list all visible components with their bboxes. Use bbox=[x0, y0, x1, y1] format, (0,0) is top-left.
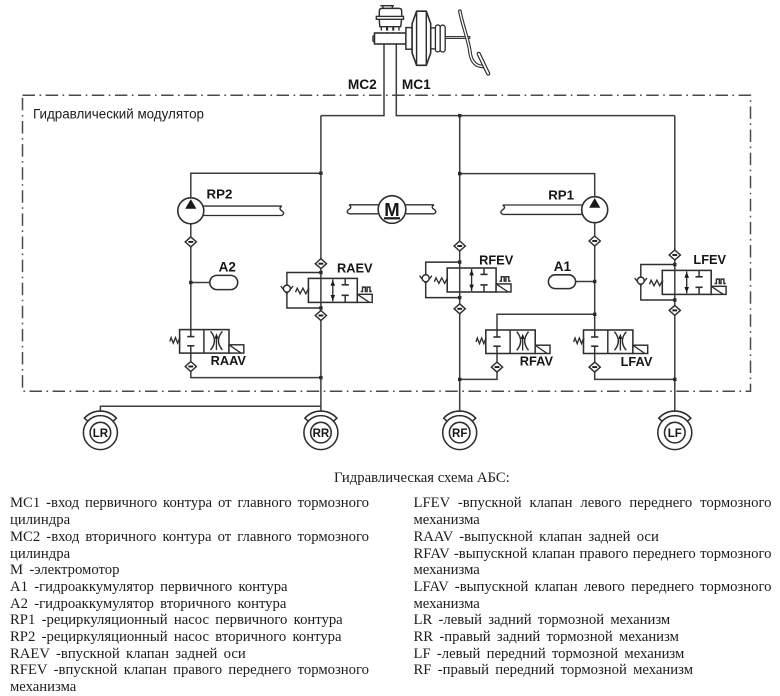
junction node: RFEV bypass bottom bbox=[458, 296, 461, 299]
junction node: RP2 discharge into RAEV line bbox=[319, 172, 322, 175]
inlet valve RAEV: solenoid with pulse control bbox=[357, 287, 372, 302]
svg-text:RP1: RP1 bbox=[548, 188, 574, 203]
check-fitting diamond at LFAV out bbox=[589, 362, 600, 372]
junction node: LFEV bypass top bbox=[673, 263, 676, 266]
wheel brake RR: drum circles bbox=[304, 416, 338, 450]
svg-text:LR: LR bbox=[93, 428, 109, 440]
junction node: MC1 line to RFEV branch bbox=[458, 114, 461, 117]
pump RP2: circle with delivery triangle bbox=[178, 198, 204, 224]
junction node: RP1 discharge into RFEV line bbox=[458, 172, 461, 175]
pushrod flange discs bbox=[435, 25, 445, 52]
junction node: A1 tap bbox=[593, 280, 596, 283]
inlet valve LFEV: solenoid with pulse control bbox=[711, 279, 726, 294]
inlet valve RFEV: body bbox=[434, 268, 496, 292]
outlet valve RAAV: solenoid bbox=[229, 345, 244, 353]
svg-text:A1: A1 bbox=[554, 259, 572, 274]
wire RAAV return to rear wheel line bbox=[191, 353, 321, 378]
wire rear axle branch to LR bbox=[100, 406, 321, 411]
svg-text:RP2: RP2 bbox=[207, 187, 233, 202]
electric motor M: right shaft bbox=[406, 205, 436, 214]
check-fitting diamond at RAAV out bbox=[185, 362, 196, 372]
hydraulic modulator boundary (dash-dot box) bbox=[23, 95, 751, 391]
wire RFAV return to RF wheel line bbox=[460, 354, 497, 380]
booster-to-flange connector lines bbox=[431, 28, 436, 49]
junction node: RFEV bypass top bbox=[458, 260, 461, 263]
wire A2 link bbox=[191, 282, 211, 284]
caption bbox=[334, 470, 510, 487]
booster step flange bbox=[406, 28, 412, 50]
svg-text:A2: A2 bbox=[219, 260, 236, 275]
junction node: RFAV return into RF line bbox=[458, 378, 461, 381]
junction node: RAAV return into rear line bbox=[319, 376, 322, 379]
wire RP1 discharge to RFEV line junction bbox=[460, 174, 595, 197]
wheel brake RR: shoe bbox=[305, 411, 337, 421]
wheel brake LF: shoe bbox=[659, 411, 691, 421]
svg-text:RF: RF bbox=[452, 428, 467, 440]
inlet valve RFEV: solenoid with pulse control bbox=[496, 277, 511, 292]
master cylinder reservoir bbox=[376, 8, 403, 26]
pump RP1: circle with delivery triangle bbox=[582, 197, 608, 223]
svg-text:RFAV: RFAV bbox=[520, 353, 554, 368]
svg-text:LFEV: LFEV bbox=[693, 252, 726, 267]
outlet valve RAAV: body bbox=[170, 330, 229, 354]
svg-text:M: M bbox=[384, 199, 399, 220]
electric motor M: circle bbox=[378, 196, 406, 224]
wire RFEV main line down to RF wheel bbox=[459, 116, 461, 412]
legend left column bbox=[10, 495, 369, 695]
pump RP1: drive shaft bbox=[501, 205, 582, 214]
check-fitting diamond at RFEV out bbox=[454, 304, 465, 314]
wheel brake LR: shoe bbox=[84, 411, 116, 421]
svg-text:RR: RR bbox=[313, 428, 330, 440]
svg-text:RAAV: RAAV bbox=[211, 353, 247, 368]
junction node: RAEV bypass top bbox=[319, 271, 322, 274]
svg-text:RFEV: RFEV bbox=[479, 252, 514, 267]
wire RFAV supply link bbox=[497, 314, 595, 330]
outlet valve LFAV: body bbox=[574, 330, 633, 354]
inlet valve RAEV: body bbox=[296, 278, 358, 302]
brake pedal arm bbox=[460, 11, 485, 67]
outlet valve RFAV: body bbox=[476, 330, 535, 354]
accumulator A1 bbox=[548, 275, 575, 289]
check-fitting diamond at LFEV out bbox=[669, 305, 680, 315]
reservoir ports bbox=[381, 27, 399, 35]
wheel brake RF: shoe bbox=[444, 411, 476, 421]
pushrod bbox=[445, 37, 470, 39]
wire RAEV main line down to RR wheel bbox=[320, 116, 322, 412]
svg-text:MC2: MC2 bbox=[348, 77, 377, 92]
inlet valve LFEV: bypass check-valve loop bbox=[635, 265, 675, 301]
wheel brake LR: drum circles bbox=[83, 416, 117, 450]
outlet valve LFAV: solenoid bbox=[633, 345, 648, 353]
inlet valve LFEV: body bbox=[649, 270, 711, 294]
svg-text:MC1: MC1 bbox=[402, 77, 431, 92]
junction node: LFEV bypass bottom bbox=[673, 298, 676, 301]
brake pedal pad bbox=[479, 54, 489, 74]
check-fitting diamond at RFAV out bbox=[491, 362, 502, 372]
legend right column bbox=[414, 495, 772, 679]
check-fitting diamond at RAEV out bbox=[315, 311, 326, 321]
check-fitting diamond at LFEV in bbox=[669, 250, 680, 260]
svg-text:LFAV: LFAV bbox=[621, 354, 653, 369]
junction node: RAEV bypass bottom bbox=[319, 306, 322, 309]
electric motor M: left shaft bbox=[347, 205, 378, 214]
pump RP2: drive shaft bbox=[203, 206, 283, 215]
junction node: LFAV return into LF line bbox=[673, 378, 676, 381]
svg-text:LF: LF bbox=[668, 428, 682, 440]
junction node: A2 tap bbox=[189, 281, 192, 284]
inlet valve RFEV: bypass check-valve loop bbox=[420, 262, 460, 298]
accumulator A2 bbox=[210, 275, 238, 289]
check-fitting diamond at RP2 out bbox=[185, 237, 196, 247]
check-fitting diamond at RFEV in bbox=[454, 241, 465, 251]
svg-text:RAEV: RAEV bbox=[337, 261, 373, 276]
vacuum booster drum bbox=[412, 11, 431, 65]
check-fitting diamond at RAEV in bbox=[315, 259, 326, 269]
master cylinder body bbox=[373, 33, 406, 44]
wire RP2 suction line down to RAAV bbox=[190, 224, 192, 330]
wire RP2 discharge to RAEV line junction bbox=[191, 173, 321, 198]
wire A1 link bbox=[575, 281, 595, 283]
junction node: RFAV link into center line bbox=[593, 313, 596, 316]
wire LFEV main line down to LF wheel bbox=[674, 116, 676, 412]
wheel brake RF: drum circles bbox=[443, 416, 477, 450]
wire RP1 suction line down to LFAV bbox=[594, 223, 596, 330]
wire LFAV return to LF wheel line bbox=[595, 354, 675, 380]
svg-text:Гидравлический модулятор: Гидравлический модулятор bbox=[33, 107, 204, 122]
wire MC2 from master cylinder to RAEV line bbox=[321, 44, 384, 116]
check-fitting diamond at RP1 out bbox=[589, 236, 600, 246]
master cylinder reservoir cap bbox=[380, 6, 394, 9]
outlet valve RFAV: solenoid bbox=[535, 345, 550, 353]
inlet valve RAEV: bypass check-valve loop bbox=[281, 273, 321, 309]
wire MC1 from master cylinder to LFEV line bbox=[396, 44, 675, 116]
wheel brake LF: drum circles bbox=[658, 416, 692, 450]
